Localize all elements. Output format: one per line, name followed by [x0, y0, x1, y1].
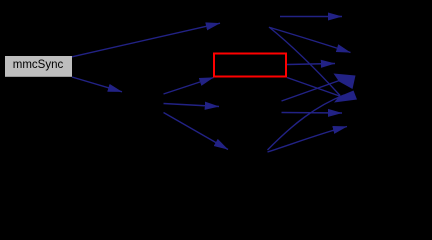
wire node A to node R2 [270, 28, 351, 53]
wire node A to node R1 [280, 16, 342, 18]
wire node D rising to cluster top [282, 79, 346, 102]
wire node B to node C [164, 113, 229, 150]
wire node A curve to cluster [269, 27, 340, 96]
wire mmcSync to node B [72, 77, 122, 92]
wire node C steep to cluster [268, 95, 345, 150]
wire node D to node R6 [282, 112, 343, 115]
red highlighted node [214, 54, 286, 77]
wire red node corner to cluster bottom [287, 78, 348, 100]
wire node B to red node [164, 78, 214, 95]
wire mmcSync to node A [72, 23, 220, 57]
wire node C to node R7 [268, 127, 348, 153]
svg-text:mmcSync: mmcSync [13, 59, 64, 71]
cluster arrowheads lower (merged) [334, 91, 357, 103]
wire node B to node D [164, 104, 220, 107]
cluster arrowheads upper (merged) [334, 74, 356, 90]
node mmcSync [5, 56, 72, 77]
wire red node to node R3 [287, 64, 335, 65]
